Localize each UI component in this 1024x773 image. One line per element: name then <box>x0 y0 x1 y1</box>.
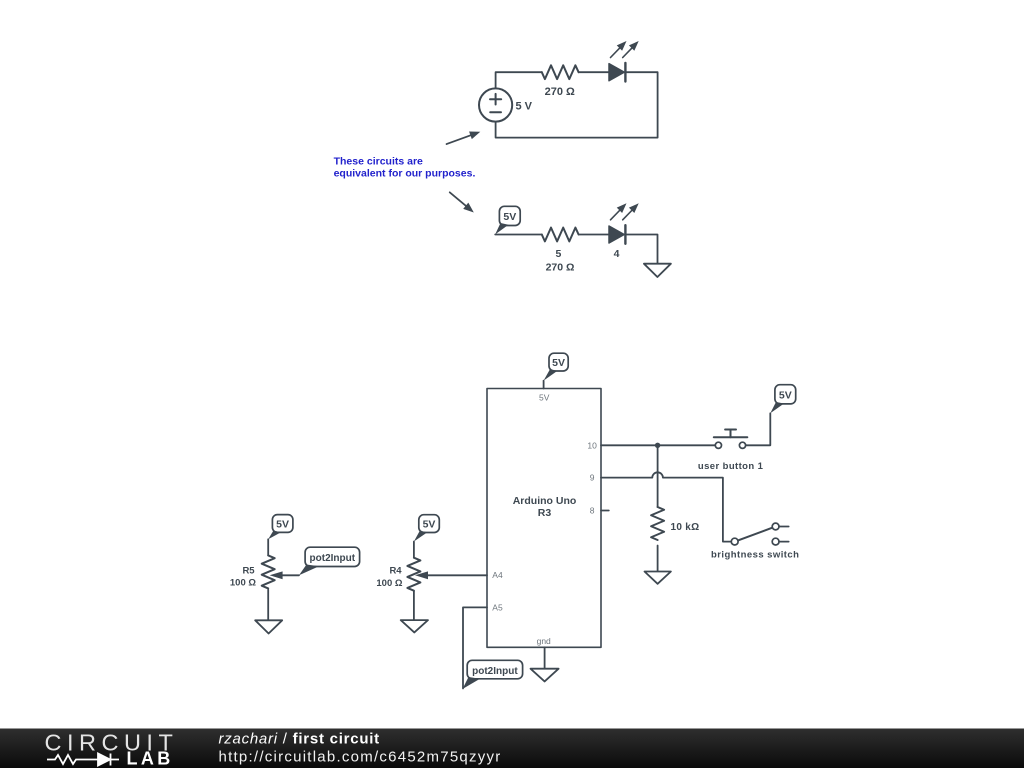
svg-text:5V: 5V <box>539 392 550 402</box>
svg-text:R4: R4 <box>389 566 402 577</box>
wire R4 top lead <box>413 542 415 558</box>
svg-text:5 V: 5 V <box>516 101 533 113</box>
net flag 5V (second circuit) <box>495 206 520 234</box>
svg-text:rzachari / first circuit: rzachari / first circuit <box>219 731 380 748</box>
resistor body R4 <box>407 558 420 591</box>
svg-text:5V: 5V <box>552 357 565 369</box>
wire R4 bottom lead <box>413 591 415 620</box>
svg-text:100 Ω: 100 Ω <box>376 578 402 589</box>
svg-text:http://circuitlab.com/c6452m75: http://circuitlab.com/c6452m75qzyyr <box>219 749 502 766</box>
net flag 5V (button) <box>770 385 795 414</box>
svg-text:gnd: gnd <box>537 636 551 646</box>
R5 wiper arrow <box>270 571 299 579</box>
svg-text:5V: 5V <box>276 519 289 531</box>
svg-text:10 kΩ: 10 kΩ <box>671 522 700 533</box>
svg-text:100 Ω: 100 Ω <box>230 578 256 589</box>
wire top circuit loop <box>496 72 658 137</box>
ground (R5) <box>255 620 282 633</box>
resistor 5 (270 ohm, second circuit) <box>542 228 579 242</box>
ground (second circuit) <box>644 264 671 277</box>
potentiometer R4 <box>414 515 439 542</box>
svg-text:5V: 5V <box>503 211 516 223</box>
wire resistor to ground <box>657 546 659 572</box>
svg-text:A4: A4 <box>492 570 503 580</box>
wire junction down to resistor (vertical) <box>657 445 659 507</box>
ground (R4) <box>401 620 428 632</box>
junction node <box>655 443 660 448</box>
R4 wiper arrow and wire to A4 <box>415 571 487 579</box>
svg-text:R3: R3 <box>538 507 552 519</box>
svg-text:user button 1: user button 1 <box>698 461 764 472</box>
svg-text:10: 10 <box>587 440 597 450</box>
LED 4 (second circuit) <box>609 225 625 260</box>
wire pin 9 with hop <box>601 472 731 541</box>
svg-text:equivalent for our purposes.: equivalent for our purposes. <box>334 167 476 179</box>
voltage source V1 <box>479 88 512 121</box>
svg-text:Arduino Uno: Arduino Uno <box>513 495 577 507</box>
net flag pot2Input (R5) <box>299 547 360 575</box>
SPDT switch brightness switch <box>731 523 788 545</box>
net flag 5V (R4) <box>419 515 440 533</box>
annotation arrow to top circuit <box>447 128 482 144</box>
svg-text:270 Ω: 270 Ω <box>546 261 575 273</box>
resistor body R5 <box>262 555 275 588</box>
LED 4 light arrows <box>611 201 642 220</box>
wire pin 10 to button <box>601 444 715 446</box>
resistor 10 kohm pulldown <box>651 507 664 540</box>
svg-text:5V: 5V <box>779 390 792 402</box>
wire A5 to pot2Input flag <box>463 607 487 688</box>
svg-text:LAB: LAB <box>127 749 174 769</box>
net flag pot2Input (A5) <box>463 660 523 689</box>
Arduino Uno U1 box <box>487 389 601 648</box>
resistor 270 ohm (top circuit) <box>542 65 579 79</box>
svg-text:8: 8 <box>590 506 595 516</box>
CircuitLab logo <box>45 730 179 769</box>
potentiometer R5 <box>268 515 293 540</box>
svg-text:A5: A5 <box>492 602 503 612</box>
svg-text:pot2Input: pot2Input <box>310 553 356 564</box>
svg-text:5V: 5V <box>423 519 436 531</box>
wire R5 top lead <box>267 539 269 555</box>
wire 5V flag to arduino <box>543 381 545 389</box>
wire button to 5V flag <box>746 413 770 445</box>
pushbutton user button 1 <box>714 430 748 449</box>
ground (arduino gnd) <box>531 669 559 682</box>
net flag 5V (R5) <box>272 515 293 533</box>
svg-text:R5: R5 <box>242 565 255 576</box>
svg-text:5: 5 <box>555 248 561 260</box>
pin 8 stub <box>601 510 609 512</box>
label Arduino Uno R3 <box>513 495 577 519</box>
net flag 5V (arduino top) <box>544 353 569 380</box>
annotation arrow to second circuit <box>450 192 477 215</box>
LED (top circuit) <box>609 63 625 82</box>
wire arduino gnd to ground <box>544 647 546 668</box>
svg-text:9: 9 <box>590 473 595 483</box>
LED light arrows (top circuit) <box>611 38 642 57</box>
svg-text:brightness switch: brightness switch <box>711 550 799 561</box>
wire R5 bottom lead <box>267 590 269 621</box>
pin labels <box>492 392 597 646</box>
annotation text (blue) <box>334 155 476 179</box>
svg-text:4: 4 <box>614 248 620 260</box>
svg-text:These circuits are: These circuits are <box>334 155 423 167</box>
wire second circuit <box>495 235 657 264</box>
svg-text:270 Ω: 270 Ω <box>545 86 575 98</box>
ground (10k resistor) <box>645 572 671 584</box>
svg-text:pot2Input: pot2Input <box>472 666 518 677</box>
